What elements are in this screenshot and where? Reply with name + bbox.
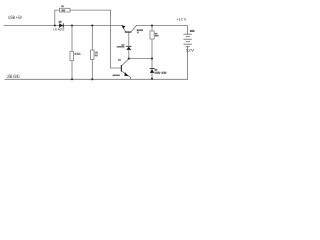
wire: T1 base to D2 xyxy=(128,32,130,46)
wire: +12V rail xyxy=(137,26,188,35)
svg-text:Batt: Batt xyxy=(190,30,195,33)
junction dots xyxy=(54,24,153,80)
transistor T2 emitter lead xyxy=(122,71,131,79)
wire: zener anode to GND xyxy=(151,73,153,79)
wire: R2 to GND xyxy=(91,60,93,80)
wire: R4 bottom to zener xyxy=(151,39,153,68)
zener diode D4 xyxy=(150,68,155,73)
wire: D2 to node xyxy=(128,50,130,59)
transistor T2 emitter arrow xyxy=(124,72,128,76)
svg-text:R last: R last xyxy=(75,53,81,56)
wire: R4 top lead xyxy=(151,26,153,32)
svg-text:D1: D1 xyxy=(59,21,62,24)
diode D1 1N4002 xyxy=(59,23,64,27)
transistor T1 emitter arrow xyxy=(122,25,126,29)
label smudges to mimic downscaled tiny text ink xyxy=(59,6,65,23)
transistor T1 emitter lead xyxy=(122,26,126,32)
svg-text:USB GND: USB GND xyxy=(7,74,20,80)
transistor T1 base bar xyxy=(125,32,132,33)
resistor R1 body xyxy=(60,8,71,12)
svg-text:1N4148: 1N4148 xyxy=(117,46,126,49)
wire: battery negative to GND xyxy=(187,47,189,80)
wire: node to zener branch xyxy=(129,58,152,60)
svg-text:6.2V 1 W: 6.2V 1 W xyxy=(155,72,168,75)
svg-text:12V: 12V xyxy=(186,48,196,52)
diode D2 (T1 base) xyxy=(126,46,132,50)
svg-text:+12 V: +12 V xyxy=(176,18,187,22)
svg-text:BC547B: BC547B xyxy=(113,74,121,77)
resistor R last body xyxy=(70,52,74,61)
svg-text:1N 4002: 1N 4002 xyxy=(53,27,65,31)
svg-text:USB +5V: USB +5V xyxy=(8,15,23,21)
wire: branch 2 from rail to R2 xyxy=(91,26,93,51)
wire: branch 1 from rail to R last xyxy=(71,26,73,52)
battery Batt xyxy=(184,34,192,47)
transistor T1 collector lead xyxy=(131,26,136,32)
transistor T2 collector lead xyxy=(122,59,129,66)
resistor R2 body xyxy=(91,50,95,60)
wire: R1 output to T2 base xyxy=(70,10,121,68)
resistor R4 body xyxy=(150,31,154,39)
wire: R1 branch up from +5V rail xyxy=(55,10,60,25)
wire: USB GND bottom rail xyxy=(5,78,188,80)
transistor T2 base bar xyxy=(121,65,122,72)
wire: USB +5V rail xyxy=(4,25,122,27)
wire: R last to GND xyxy=(71,61,73,80)
